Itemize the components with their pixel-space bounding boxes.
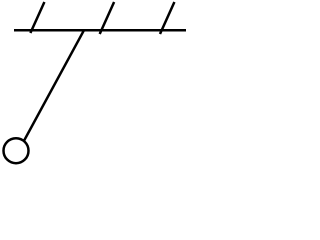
hatch mark 3 <box>160 2 174 34</box>
hatch mark 1 <box>30 2 44 33</box>
hatch mark 2 <box>100 2 114 34</box>
pendulum string <box>19 30 84 151</box>
ceiling line <box>14 29 186 32</box>
pendulum bob <box>4 138 29 163</box>
